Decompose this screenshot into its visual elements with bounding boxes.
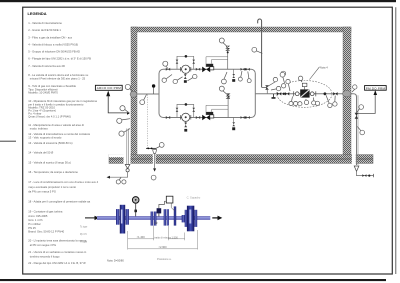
svg-text:Pp 0.5: Pp 0.5 [80,234,87,236]
svg-text:19 - Contatore di gas turbina: 19 - Contatore di gas turbina [28,209,63,213]
svg-text:C. Squadro: C. Squadro [187,195,201,199]
svg-text:Brand: Giro; 50-80 12 P PN40: Brand: Giro; 50-80 12 P PN40 [28,230,64,234]
svg-text:Ps gas: Ps gas [80,241,88,243]
svg-text:Qmax (Vmax): dm 4.0 1.1 (P PN4: Qmax (Vmax): dm 4.0 1.1 (P PN40) [28,115,71,119]
svg-text:4 - Valvola di blocco a molla: 4 - Valvola di blocco a molla (VS55 PN16… [28,43,78,47]
svg-text:tratto di misura 1.500: tratto di misura 1.500 [154,237,178,240]
svg-text:da PN con marca 5 PG: da PN con marca 5 PG [28,190,56,194]
svg-text:Anno: 195-2005: Anno: 195-2005 [28,214,48,218]
svg-text:12 - Valvola di intercettazion: 12 - Valvola di intercettazione a monte … [28,132,90,136]
svg-text:tombino secondo il luogo: tombino secondo il luogo [30,255,60,259]
svg-text:LEGENDA: LEGENDA [28,11,47,16]
svg-text:14 - Valvola del 50 Ø: 14 - Valvola del 50 Ø [28,151,53,155]
svg-text:17 - Luce di condizionamento c: 17 - Luce di condizionamento con uno di … [28,180,98,184]
svg-text:Nota: D=50/80: Nota: D=50/80 [107,259,124,263]
svg-text:al PN con segue il PG: al PN con segue il PG [30,243,56,247]
svg-text:PN 25: PN 25 [28,226,36,230]
svg-text:misura il Pset inferiore da 3/: misura il Pset inferiore da 3/E atm pian… [30,76,86,80]
svg-text:maj e eventuale propulsori 1 n: maj e eventuale propulsori 1 nel e vento [28,185,76,189]
svg-text:21 - Utenze di un serbatoio e: 21 - Utenze di un serbatoio e contatore … [28,250,86,254]
svg-text:Giro: 1 m³/h: Giro: 1 m³/h [28,218,43,222]
svg-text:6 - Flangia del tipo UNI 2282: 6 - Flangia del tipo UNI 2282 t.d.m. di … [28,57,91,61]
svg-text:5 - Gruppo di riduzione DN 50/: 5 - Gruppo di riduzione DN 50/40/25 FB A… [28,50,80,54]
svg-text:20 - L'impianto terra sara dim: 20 - L'impianto terra sara dimensionato … [28,239,87,243]
svg-text:Pressione a.: Pressione a. [157,257,172,261]
svg-text:13 - Valv. supporto di snodo: 13 - Valv. supporto di snodo [28,135,62,139]
svg-text:16 - Temperatura; da scarpe e: 16 - Temperatura; da scarpe e deviazione [28,170,78,174]
svg-text:7 - Valvola di sicurezza aux 2: 7 - Valvola di sicurezza aux 2D [28,64,65,68]
svg-text:≈2.900: ≈2.900 [159,245,167,249]
svg-text:ARCO DO PRM: ARCO DO PRM [97,86,122,90]
svg-text:9 - Tubi di gas con trascinato: 9 - Tubi di gas con trascinato e flessib… [28,84,76,88]
svg-text:1 - Valvola di intercettazione: 1 - Valvola di intercettazione [28,21,62,25]
svg-text:modo: indirizzo: modo: indirizzo [30,127,49,131]
svg-text:2 - Giunto del FE.53.62/E 1: 2 - Giunto del FE.53.62/E 1 [28,28,61,32]
svg-text:PM DO PRM: PM DO PRM [366,86,386,90]
svg-text:Modello: 10-240/E PM70: Modello: 10-240/E PM70 [28,91,58,95]
svg-text:≈1.400: ≈1.400 [137,235,145,239]
svg-text:3 - Filtro a gas da installare: 3 - Filtro a gas da installare DN - aux [28,35,72,39]
svg-text:Tc type: Tc type [80,226,88,229]
svg-text:Pn m3/bar: Pn m3/bar [28,222,41,226]
svg-text:Nota 4: Nota 4 [320,65,328,69]
svg-text:11 - Manipolazione di area e v: 11 - Manipolazione di area e valvole ad … [28,123,84,127]
svg-text:8 - La valvola di scarico dovr: 8 - La valvola di scarico dovra and a fu… [28,73,88,77]
svg-text:13 - Valvola di sicurezza (500: 13 - Valvola di sicurezza (5000-50 G) [28,141,72,145]
svg-text:22 - Flange del tipo UNI 2282: 22 - Flange del tipo UNI 2282 t.d.m 3 E.… [28,261,85,265]
svg-text:10 - Riparatore fili di misura: 10 - Riparatore fili di misuratore gas p… [28,99,97,103]
svg-text:15 - Valvola di scarico (Il an: 15 - Valvola di scarico (Il ango 50 p) [28,160,71,164]
svg-text:18 - Adatta per il convogliare: 18 - Adatta per il convogliare di pressi… [28,199,90,203]
